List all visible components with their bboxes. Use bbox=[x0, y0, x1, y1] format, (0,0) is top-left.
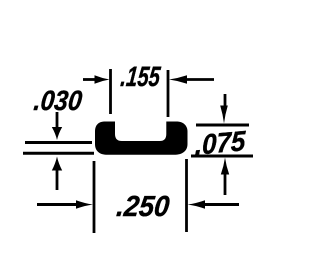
svg-text:.030: .030 bbox=[32, 85, 84, 117]
svg-text:.250: .250 bbox=[115, 190, 171, 222]
svg-text:.155: .155 bbox=[119, 62, 162, 93]
svg-text:.075: .075 bbox=[195, 124, 247, 161]
